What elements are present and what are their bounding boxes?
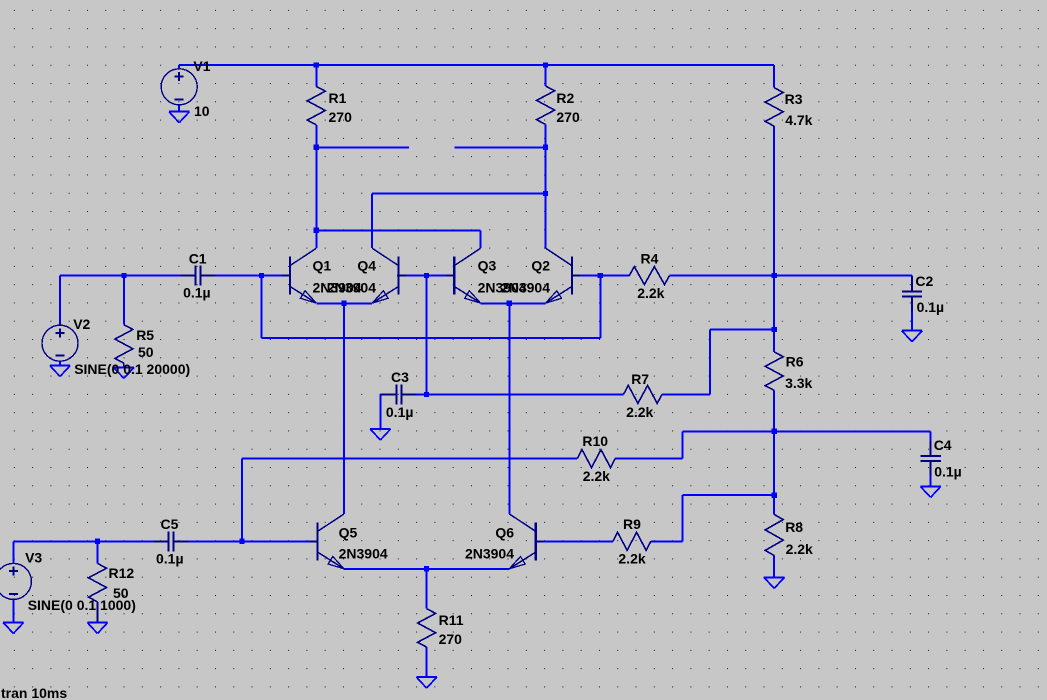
svg-text:Q4: Q4 xyxy=(357,257,376,273)
svg-text:3.3k: 3.3k xyxy=(785,375,812,391)
svg-text:Q2: Q2 xyxy=(531,257,550,273)
svg-text:V2: V2 xyxy=(73,316,90,332)
svg-text:4.7k: 4.7k xyxy=(785,112,812,128)
svg-text:Q1: Q1 xyxy=(313,257,332,273)
svg-text:R2: R2 xyxy=(556,90,574,106)
svg-text:C5: C5 xyxy=(161,516,179,532)
svg-text:R7: R7 xyxy=(631,371,649,387)
svg-text:R1: R1 xyxy=(329,90,347,106)
svg-text:0.1µ: 0.1µ xyxy=(386,404,414,420)
svg-text:R8: R8 xyxy=(785,519,803,535)
svg-text:2.2k: 2.2k xyxy=(786,541,813,557)
svg-text:0.1µ: 0.1µ xyxy=(917,299,945,315)
svg-text:270: 270 xyxy=(329,109,353,125)
svg-text:V3: V3 xyxy=(25,550,42,566)
svg-text:270: 270 xyxy=(439,631,463,647)
svg-text:R5: R5 xyxy=(136,327,154,343)
svg-text:2.2k: 2.2k xyxy=(583,468,610,484)
svg-text:R4: R4 xyxy=(641,251,659,267)
svg-text:2.2k: 2.2k xyxy=(637,285,664,301)
svg-text:R10: R10 xyxy=(582,433,608,449)
svg-text:R6: R6 xyxy=(786,354,804,370)
svg-text:0.1µ: 0.1µ xyxy=(183,285,211,301)
svg-text:R12: R12 xyxy=(109,565,135,581)
svg-text:V1: V1 xyxy=(193,58,210,74)
svg-text:R3: R3 xyxy=(785,91,803,107)
svg-text:0.1µ: 0.1µ xyxy=(156,550,184,566)
svg-text:R9: R9 xyxy=(623,516,641,532)
svg-text:Q3: Q3 xyxy=(478,257,497,273)
svg-text:2N3904: 2N3904 xyxy=(465,546,514,562)
svg-text:R11: R11 xyxy=(439,612,464,628)
svg-text:50: 50 xyxy=(113,585,129,601)
svg-text:tran 10ms: tran 10ms xyxy=(1,685,67,700)
svg-text:C1: C1 xyxy=(189,250,207,266)
svg-text:0.1µ: 0.1µ xyxy=(934,464,962,480)
svg-text:C4: C4 xyxy=(934,437,952,453)
svg-text:SINE(0 0.1 20000): SINE(0 0.1 20000) xyxy=(74,361,190,377)
svg-text:10: 10 xyxy=(194,103,210,119)
svg-text:2.2k: 2.2k xyxy=(618,551,645,567)
svg-text:C2: C2 xyxy=(915,273,933,289)
svg-text:Q6: Q6 xyxy=(495,525,514,541)
svg-text:50: 50 xyxy=(138,344,154,360)
svg-text:270: 270 xyxy=(556,109,580,125)
svg-text:2N3904: 2N3904 xyxy=(327,279,376,295)
svg-text:Q5: Q5 xyxy=(339,525,358,541)
svg-text:2.2k: 2.2k xyxy=(626,404,653,420)
svg-text:2N3904: 2N3904 xyxy=(501,279,550,295)
svg-text:C3: C3 xyxy=(391,369,409,385)
svg-text:2N3904: 2N3904 xyxy=(339,546,388,562)
